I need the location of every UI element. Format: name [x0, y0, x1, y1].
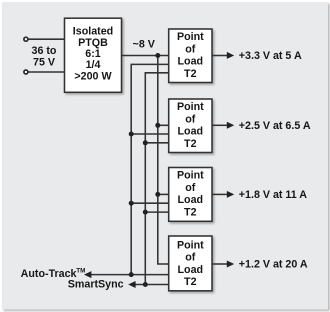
svg-text:36 to: 36 to	[32, 45, 57, 57]
svg-text:>200 W: >200 W	[74, 70, 112, 82]
wire input bottom	[28, 71, 65, 73]
junction power-out	[155, 53, 160, 58]
wire power bus	[158, 56, 169, 265]
wire POL2 input	[158, 124, 169, 126]
junction POL2 input	[155, 123, 160, 128]
junction POL3 track	[129, 201, 134, 206]
svg-text:+3.3 V at 5 A: +3.3 V at 5 A	[239, 50, 302, 62]
svg-text:T2: T2	[184, 138, 197, 150]
svg-text:+1.2 V at 20 A: +1.2 V at 20 A	[239, 259, 308, 271]
junction POL4 track	[129, 272, 134, 277]
svg-text:of: of	[185, 252, 196, 264]
wire auto-track to POL4	[90, 274, 169, 276]
svg-text:Point: Point	[177, 170, 204, 182]
svg-text:6:1: 6:1	[85, 48, 101, 60]
svg-text:T2: T2	[184, 276, 197, 288]
wire input top	[28, 38, 65, 40]
svg-text:PTQB: PTQB	[78, 37, 108, 49]
svg-text:1/4: 1/4	[86, 59, 101, 71]
svg-text:75 V: 75 V	[33, 57, 56, 69]
junction POL2 track	[129, 132, 134, 137]
wire smartsync to POL4	[135, 284, 169, 286]
svg-text:TM: TM	[76, 267, 85, 274]
svg-text:Load: Load	[178, 56, 204, 68]
wire POL2 track	[131, 133, 169, 135]
svg-text:+1.8 V at 11 A: +1.8 V at 11 A	[239, 189, 308, 201]
svg-text:SmartSync: SmartSync	[68, 278, 124, 290]
wire POL3 sync	[145, 211, 168, 213]
arrow output 4	[227, 261, 234, 268]
svg-text:of: of	[185, 113, 196, 125]
wire auto-track bus	[131, 64, 169, 274]
converter U1 Isolated PTQB	[65, 18, 122, 92]
arrow output 3	[227, 191, 234, 198]
wire POL3 input	[158, 193, 169, 195]
svg-text:Point: Point	[177, 31, 204, 43]
svg-text:Load: Load	[178, 194, 204, 206]
arrow auto-track	[84, 271, 91, 278]
wire output 4	[212, 263, 227, 265]
POL module 1	[169, 29, 212, 83]
wire output 2	[212, 124, 227, 126]
terminal input bottom	[24, 70, 28, 74]
arrow output 2	[227, 122, 234, 129]
terminal input top	[24, 37, 28, 41]
wire POL3 track	[131, 202, 169, 204]
svg-text:T2: T2	[184, 68, 197, 80]
wire PTQB output	[122, 55, 169, 57]
svg-text:Load: Load	[178, 126, 204, 138]
svg-text:+2.5 V at 6.5 A: +2.5 V at 6.5 A	[239, 120, 311, 132]
POL module 3	[169, 168, 212, 222]
svg-text:T2: T2	[184, 206, 197, 218]
wire output 1	[212, 55, 227, 57]
junction POL3 sync	[143, 210, 148, 215]
svg-text:Isolated: Isolated	[73, 26, 113, 38]
junction POL2 sync	[143, 140, 148, 145]
junction POL3 input	[155, 192, 160, 197]
svg-text:of: of	[185, 43, 196, 55]
arrow smartsync	[128, 281, 135, 288]
svg-text:Point: Point	[177, 239, 204, 251]
wire POL2 sync	[145, 142, 168, 144]
junction POL4 sync	[143, 282, 148, 287]
POL module 4	[169, 236, 212, 291]
svg-text:Point: Point	[177, 101, 204, 113]
svg-text:of: of	[185, 182, 196, 194]
svg-text:~8 V: ~8 V	[133, 39, 156, 51]
arrow output 1	[227, 52, 234, 59]
wire smartsync bus	[145, 73, 168, 285]
svg-text:Load: Load	[178, 264, 204, 276]
wire output 3	[212, 193, 227, 195]
POL module 2	[169, 99, 212, 153]
